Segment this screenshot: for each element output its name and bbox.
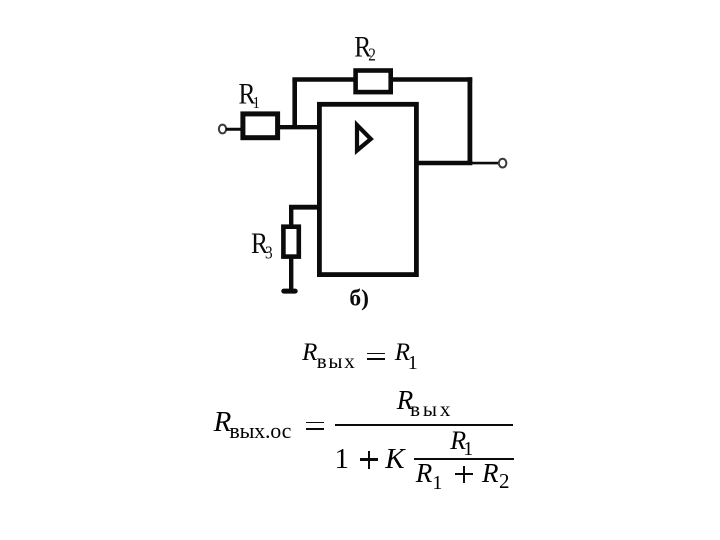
- svg-text:R3: R3: [251, 227, 273, 263]
- f2 equals top bar: [306, 422, 324, 424]
- svg-text:R1: R1: [239, 78, 260, 113]
- op-amp U1 triangle symbol: [357, 125, 371, 151]
- f1 equals bottom bar: [367, 358, 385, 360]
- f2 numerator subscript vyh: [410, 399, 453, 420]
- wire feedback right vertical down to output: [467, 77, 472, 163]
- f2 inner numerator subscript 1: [463, 439, 473, 459]
- wire down to R3: [289, 205, 293, 227]
- resistor R3: [283, 227, 298, 257]
- f2 denominator plus: [360, 458, 378, 460]
- resistor R2: [356, 71, 391, 93]
- resistor R1: [243, 114, 278, 138]
- f2 inner numerator R italic: [450, 428, 466, 454]
- formula 1: R_vyh = R_1: [0, 0, 720, 1]
- f2 denominator 1: [335, 445, 350, 474]
- ground: [284, 289, 295, 294]
- op-amp U1 body: [319, 104, 416, 274]
- svg-text:б): б): [349, 285, 369, 311]
- f2 lhs R italic: [214, 408, 232, 437]
- f2 inner denominator R2 italic: [482, 460, 499, 487]
- formula 2: R_vyh.os = R_vyh / (1 + K R1/(R1+R2)): [0, 0, 720, 1]
- f2 inner denominator subscript 2: [499, 471, 510, 492]
- wire R3 to ground: [289, 256, 293, 289]
- f1 subscript 1: [408, 353, 418, 373]
- label R1: [239, 78, 260, 113]
- f2 lhs subscript vyh.os: [229, 420, 291, 442]
- f2 equals bottom bar: [306, 428, 324, 430]
- node A junction vertical wire up to feedback: [292, 80, 297, 128]
- f2 denominator K italic: [385, 445, 404, 474]
- wire input terminal to R1: [226, 128, 243, 131]
- label R3: [251, 227, 273, 263]
- f2 inner denominator subscript 1: [432, 473, 442, 493]
- f2 main fraction bar: [335, 424, 513, 426]
- wire op-amp output to feedback junction: [416, 161, 472, 166]
- f1 R italic: [302, 340, 317, 365]
- wire op-amp inverting input to R3 branch: [289, 205, 319, 210]
- svg-text:R2: R2: [354, 30, 376, 64]
- f1 subscript vyh: [317, 351, 357, 372]
- label R2: [354, 30, 376, 64]
- f2 inner fraction bar: [414, 458, 514, 460]
- input terminal circle: [219, 125, 226, 134]
- f1 R1 italic: [395, 340, 410, 365]
- f2 inner denominator plus: [455, 473, 474, 475]
- wire feedback junction to output terminal: [470, 162, 499, 165]
- f2 inner denominator R italic: [416, 460, 433, 487]
- wire feedback top horizontal: [292, 77, 472, 82]
- f1 equals top bar: [367, 353, 385, 355]
- output terminal circle: [499, 159, 507, 168]
- wire R1 to op-amp input node: [277, 125, 319, 129]
- f2 numerator R italic: [397, 387, 414, 414]
